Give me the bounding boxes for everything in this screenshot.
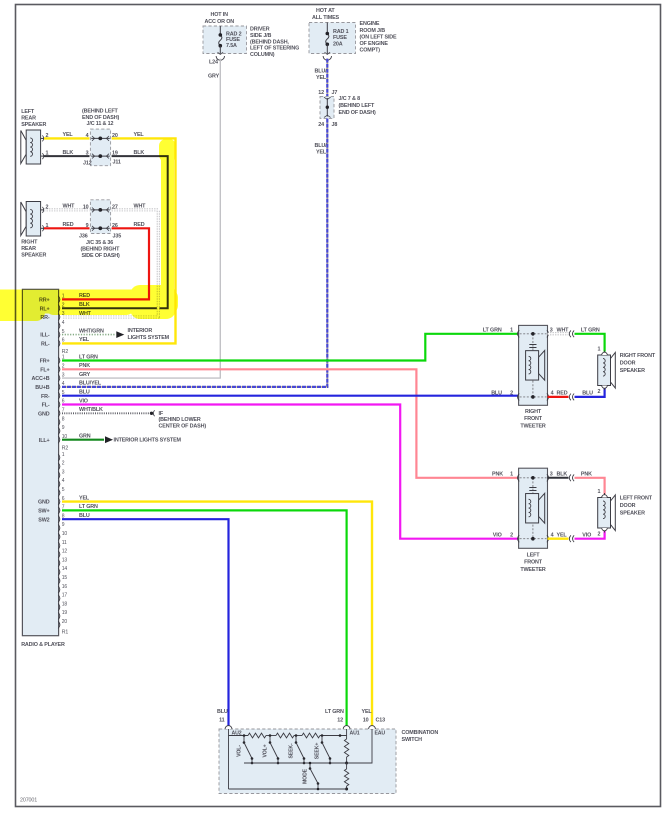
svg-text:HOT IN: HOT IN bbox=[211, 12, 229, 18]
svg-text:J8: J8 bbox=[332, 122, 338, 128]
svg-text:LT GRN: LT GRN bbox=[79, 354, 98, 360]
svg-text:R2: R2 bbox=[62, 446, 69, 452]
svg-text:5: 5 bbox=[62, 487, 65, 493]
resistor to bottom rail bbox=[346, 763, 348, 769]
svg-text:COMPT): COMPT) bbox=[360, 48, 381, 54]
svg-text:YEL: YEL bbox=[316, 150, 327, 156]
svg-text:YEL: YEL bbox=[79, 337, 90, 343]
svg-text:ENGINE: ENGINE bbox=[360, 21, 380, 27]
wire RED right tweeter pin4 to connector bbox=[548, 396, 569, 398]
wire BLU to right front door speaker pin 2 bbox=[575, 389, 605, 397]
svg-text:3: 3 bbox=[550, 472, 553, 478]
junction connector J/C 11 & 12 box bbox=[90, 129, 110, 166]
svg-text:FUSE: FUSE bbox=[333, 35, 347, 41]
svg-text:BLK: BLK bbox=[557, 472, 568, 478]
wire LT GRN to right front door speaker pin 1 bbox=[575, 334, 605, 352]
tweeter internal wiring (dashed) bbox=[520, 477, 547, 479]
svg-text:VOL-: VOL- bbox=[237, 745, 243, 757]
svg-text:2: 2 bbox=[597, 389, 600, 395]
svg-text:12: 12 bbox=[318, 90, 324, 96]
svg-text:9: 9 bbox=[86, 223, 89, 229]
svg-text:BLU: BLU bbox=[491, 391, 502, 397]
svg-text:16: 16 bbox=[62, 584, 68, 590]
svg-text:REAR: REAR bbox=[21, 246, 36, 252]
wire WHT right tweeter pin3 to connector bbox=[548, 332, 569, 335]
connector IF (behind lower center of dash) bbox=[150, 412, 153, 415]
connector bump under RAD 1 bbox=[323, 56, 331, 60]
svg-text:(BEHIND LEFT: (BEHIND LEFT bbox=[339, 103, 375, 109]
svg-text:RAD 1: RAD 1 bbox=[333, 29, 349, 35]
tweeter speaker element bbox=[526, 351, 539, 380]
svg-text:C13: C13 bbox=[376, 718, 386, 724]
svg-text:1: 1 bbox=[510, 472, 513, 478]
svg-text:BLU: BLU bbox=[582, 391, 593, 397]
svg-text:DOOR: DOOR bbox=[620, 503, 636, 509]
svg-text:LEFT FRONT: LEFT FRONT bbox=[620, 496, 653, 502]
wire BLU radio FR- to right front tweeter pin 2 bbox=[62, 395, 519, 397]
speaker pin stubs bbox=[41, 209, 44, 211]
svg-text:J12: J12 bbox=[83, 161, 92, 167]
svg-text:COMBINATION: COMBINATION bbox=[402, 730, 439, 736]
svg-text:YEL: YEL bbox=[316, 75, 327, 81]
svg-text:9: 9 bbox=[62, 522, 65, 528]
svg-text:2: 2 bbox=[597, 532, 600, 538]
svg-text:R1: R1 bbox=[62, 630, 69, 636]
svg-text:(BEHIND DASH,: (BEHIND DASH, bbox=[250, 39, 289, 45]
svg-text:SEEK-: SEEK- bbox=[289, 743, 295, 759]
fuse RAD 2 symbol bbox=[219, 26, 221, 35]
svg-text:BU+B: BU+B bbox=[35, 385, 49, 391]
speaker cone bbox=[21, 131, 26, 164]
wire LT GRN radio SW+ to combination switch AU1 bbox=[62, 510, 347, 725]
wire WHT/GRN with arrow to interior lights system bbox=[62, 334, 115, 336]
switch VOL- bbox=[243, 736, 245, 743]
svg-text:J/C 35 & 36: J/C 35 & 36 bbox=[86, 240, 113, 246]
switch SEEK- bbox=[295, 736, 297, 743]
switch SEEK+ bbox=[321, 736, 323, 743]
svg-text:LT GRN: LT GRN bbox=[79, 504, 98, 510]
svg-text:RED: RED bbox=[134, 222, 145, 228]
svg-text:13: 13 bbox=[62, 557, 68, 563]
wire WHT/BLK radio GND to IF connector bbox=[62, 412, 150, 414]
svg-text:BLK: BLK bbox=[63, 150, 74, 156]
svg-text:RADIO & PLAYER: RADIO & PLAYER bbox=[21, 642, 65, 648]
svg-text:RIGHT: RIGHT bbox=[21, 240, 38, 246]
svg-text:4: 4 bbox=[62, 320, 65, 326]
door speaker pin stubs and connectors bbox=[604, 351, 606, 356]
svg-text:(BEHIND RIGHT: (BEHIND RIGHT bbox=[81, 247, 121, 253]
svg-text:TWEETER: TWEETER bbox=[520, 567, 546, 573]
svg-text:REAR: REAR bbox=[21, 116, 36, 122]
svg-text:BLU/YEL: BLU/YEL bbox=[79, 381, 102, 387]
tweeter capacitor bbox=[529, 344, 536, 346]
svg-text:8: 8 bbox=[62, 416, 65, 422]
connector L24 bump bbox=[216, 56, 224, 60]
svg-text:3: 3 bbox=[62, 469, 65, 475]
svg-text:WHT: WHT bbox=[134, 204, 147, 210]
svg-text:12: 12 bbox=[337, 718, 343, 724]
svg-text:SPEAKER: SPEAKER bbox=[21, 252, 46, 258]
svg-text:ACC+B: ACC+B bbox=[32, 376, 50, 382]
svg-text:10: 10 bbox=[62, 531, 68, 537]
radio & player box bbox=[22, 289, 58, 635]
svg-text:ILL+: ILL+ bbox=[39, 438, 50, 444]
svg-text:PNK: PNK bbox=[492, 472, 503, 478]
wire LT GRN radio FR+ to right front tweeter pin 1 bbox=[62, 334, 519, 361]
wire BLU radio SW2 to combination switch AU2 bbox=[62, 519, 229, 725]
wire PNK to left front door speaker pin 1 bbox=[575, 478, 605, 495]
yellow highlighter marks bbox=[0, 139, 178, 321]
combination switch middle rail bbox=[244, 762, 347, 764]
svg-text:4: 4 bbox=[86, 133, 89, 139]
wire GRY vertical from fuse RAD 2 to radio ACC+B bbox=[219, 59, 221, 379]
svg-text:PNK: PNK bbox=[581, 472, 592, 478]
svg-text:DOOR: DOOR bbox=[620, 361, 636, 367]
svg-text:GRN: GRN bbox=[79, 434, 91, 440]
svg-text:SEEK+: SEEK+ bbox=[315, 743, 321, 760]
inline connector right top bbox=[569, 330, 574, 337]
svg-text:COLUMN): COLUMN) bbox=[250, 52, 275, 58]
svg-text:14: 14 bbox=[62, 566, 68, 572]
svg-text:18: 18 bbox=[62, 601, 68, 607]
door speaker cone bbox=[611, 352, 616, 388]
wire PNK radio FL+ to left front tweeter pin 1 bbox=[62, 369, 519, 478]
svg-text:WHT/BLK: WHT/BLK bbox=[79, 407, 103, 413]
engine room J/B box (dashed) bbox=[309, 23, 356, 54]
tweeter internal wiring (dashed) bbox=[520, 333, 547, 335]
svg-text:RIGHT FRONT: RIGHT FRONT bbox=[620, 353, 656, 359]
tweeter pin brackets bbox=[518, 330, 520, 337]
svg-text:1: 1 bbox=[597, 489, 600, 495]
svg-text:VOL+: VOL+ bbox=[263, 744, 269, 757]
svg-text:J36: J36 bbox=[79, 234, 88, 240]
svg-text:11: 11 bbox=[219, 718, 225, 724]
svg-text:6: 6 bbox=[62, 338, 65, 344]
wire RED from J/C 35&36 to radio RR+ pin 1 bbox=[62, 228, 149, 299]
wire VIO radio FL- to left front tweeter pin 2 bbox=[62, 405, 519, 539]
svg-text:WHT/GRN: WHT/GRN bbox=[79, 328, 104, 334]
inline connector right bottom bbox=[569, 394, 574, 401]
svg-text:YEL: YEL bbox=[557, 532, 568, 538]
svg-text:LEFT OF STEERING: LEFT OF STEERING bbox=[250, 46, 299, 52]
svg-text:SIDE OF DASH): SIDE OF DASH) bbox=[82, 253, 121, 259]
svg-text:MODE: MODE bbox=[303, 768, 309, 784]
svg-text:SPEAKER: SPEAKER bbox=[620, 368, 645, 374]
svg-text:WHT: WHT bbox=[63, 204, 76, 210]
svg-text:LT GRN: LT GRN bbox=[483, 328, 502, 334]
svg-text:3: 3 bbox=[62, 372, 65, 378]
combination switch box bbox=[219, 729, 396, 794]
svg-text:VIO: VIO bbox=[79, 398, 88, 404]
speaker pin stubs bbox=[41, 137, 44, 139]
wire BLU/YEL from J/C 7&8 down to radio BU+B pin 4 bbox=[326, 119, 328, 387]
svg-text:RED: RED bbox=[63, 222, 74, 228]
tweeter box bbox=[519, 468, 548, 548]
svg-text:VIO: VIO bbox=[582, 532, 591, 538]
svg-text:L24: L24 bbox=[209, 60, 218, 66]
wire BLK from J/C 11&12 to radio RL+ pin 2 bbox=[62, 156, 168, 308]
svg-text:ALL TIMES: ALL TIMES bbox=[312, 15, 340, 21]
svg-text:1: 1 bbox=[597, 347, 600, 353]
svg-text:AU1: AU1 bbox=[350, 731, 360, 737]
svg-text:FL+: FL+ bbox=[40, 367, 49, 373]
svg-text:GND: GND bbox=[38, 500, 50, 506]
svg-text:CENTER OF DASH): CENTER OF DASH) bbox=[159, 424, 207, 430]
svg-text:J7: J7 bbox=[332, 90, 338, 96]
wire WHT right rear speaker to J/C 35&36 bbox=[44, 209, 90, 212]
door speaker cone bbox=[611, 495, 616, 531]
svg-text:(ON LEFT SIDE: (ON LEFT SIDE bbox=[360, 34, 398, 40]
svg-text:11: 11 bbox=[62, 540, 67, 546]
svg-text:FR+: FR+ bbox=[40, 359, 50, 365]
svg-text:ILL-: ILL- bbox=[40, 333, 50, 339]
wire BLK left rear speaker to J/C 11&12 bbox=[44, 155, 90, 157]
wire GRN radio ILL+ with arrow to interior lights system bbox=[62, 439, 104, 441]
svg-text:YEL: YEL bbox=[134, 132, 145, 138]
svg-text:INTERIOR LIGHTS SYSTEM: INTERIOR LIGHTS SYSTEM bbox=[114, 437, 182, 443]
svg-text:SIDE J/B: SIDE J/B bbox=[250, 33, 272, 39]
tweeter box bbox=[519, 325, 548, 405]
svg-text:SW2: SW2 bbox=[38, 517, 49, 523]
svg-text:BLU: BLU bbox=[79, 390, 90, 396]
svg-text:RED: RED bbox=[557, 391, 568, 397]
svg-text:BLU/: BLU/ bbox=[315, 69, 328, 75]
svg-text:J35: J35 bbox=[113, 234, 122, 240]
wire YEL from J/C 11&12 to radio RL- pin 6 bbox=[62, 138, 176, 343]
svg-text:2: 2 bbox=[510, 533, 513, 539]
svg-text:FL-: FL- bbox=[42, 403, 50, 409]
svg-text:FRONT: FRONT bbox=[524, 416, 543, 422]
svg-text:LIGHTS SYSTEM: LIGHTS SYSTEM bbox=[128, 335, 170, 341]
resistor below AU1 bbox=[346, 729, 348, 739]
svg-text:J11: J11 bbox=[113, 160, 121, 166]
svg-text:LT GRN: LT GRN bbox=[581, 328, 600, 334]
svg-text:SPEAKER: SPEAKER bbox=[21, 122, 46, 128]
svg-text:VIO: VIO bbox=[493, 532, 502, 538]
wire BLK left tweeter pin3 to connector bbox=[548, 477, 569, 479]
tweeter pin brackets bbox=[518, 474, 520, 481]
svg-text:LEFT: LEFT bbox=[21, 109, 35, 115]
svg-text:ROOM J/B: ROOM J/B bbox=[360, 28, 386, 34]
wire YEL radio GND to combination switch EAU bbox=[62, 502, 372, 726]
driver side J/B box (dashed) bbox=[203, 26, 247, 54]
wire WHT from J/C 35&36 to radio RR- pin 3 bbox=[62, 210, 158, 317]
svg-text:WHT: WHT bbox=[557, 328, 570, 334]
svg-text:LEFT: LEFT bbox=[527, 553, 541, 559]
svg-text:4: 4 bbox=[62, 381, 65, 387]
svg-text:TWEETER: TWEETER bbox=[520, 423, 546, 429]
svg-text:HOT AT: HOT AT bbox=[316, 8, 335, 14]
svg-text:GND: GND bbox=[38, 411, 50, 417]
svg-text:10: 10 bbox=[363, 718, 369, 724]
switch VOL+ bbox=[269, 736, 271, 743]
wire YEL left rear speaker to J/C 11&12 bbox=[44, 137, 90, 139]
svg-text:207001: 207001 bbox=[20, 798, 37, 804]
svg-text:24: 24 bbox=[318, 122, 324, 128]
tweeter speaker element bbox=[526, 494, 539, 523]
svg-text:GRY: GRY bbox=[79, 372, 91, 378]
svg-text:YEL: YEL bbox=[63, 132, 74, 138]
switch MODE bbox=[309, 763, 311, 769]
wire BLU/YEL horizontal into radio pin 4 bbox=[62, 386, 328, 388]
inline connector left top bbox=[569, 474, 574, 481]
svg-text:1: 1 bbox=[62, 452, 65, 458]
wire YEL left tweeter pin4 to connector bbox=[548, 538, 569, 540]
svg-text:SW+: SW+ bbox=[38, 509, 49, 515]
svg-text:20: 20 bbox=[62, 619, 68, 625]
svg-text:BLU: BLU bbox=[217, 709, 228, 715]
svg-text:FR-: FR- bbox=[41, 394, 50, 400]
svg-text:19: 19 bbox=[62, 610, 68, 616]
svg-text:4: 4 bbox=[62, 478, 65, 484]
wire RED right rear speaker to J/C 35&36 bbox=[44, 227, 90, 229]
speaker body bbox=[26, 202, 40, 237]
svg-text:BLU: BLU bbox=[79, 513, 90, 519]
speaker body bbox=[26, 130, 40, 164]
svg-text:BLU/: BLU/ bbox=[315, 143, 328, 149]
svg-text:1: 1 bbox=[510, 328, 513, 334]
combination switch bottom rail bbox=[229, 788, 347, 790]
svg-text:FRONT: FRONT bbox=[524, 560, 543, 566]
svg-text:10: 10 bbox=[83, 205, 89, 211]
radio connector pin brackets bbox=[58, 296, 60, 303]
svg-text:OF ENGINE: OF ENGINE bbox=[360, 41, 389, 47]
svg-text:20A: 20A bbox=[333, 42, 343, 48]
wire VIO to left front door speaker pin 2 bbox=[575, 531, 605, 539]
svg-text:RIGHT: RIGHT bbox=[525, 409, 542, 415]
svg-text:9: 9 bbox=[62, 425, 65, 431]
svg-text:SWITCH: SWITCH bbox=[402, 737, 423, 743]
svg-text:BLK: BLK bbox=[134, 150, 145, 156]
svg-text:RL-: RL- bbox=[41, 342, 50, 348]
svg-text:PNK: PNK bbox=[79, 363, 90, 369]
svg-text:ACC OR ON: ACC OR ON bbox=[205, 19, 235, 25]
svg-text:17: 17 bbox=[62, 593, 68, 599]
svg-text:3: 3 bbox=[86, 151, 89, 157]
svg-text:YEL: YEL bbox=[362, 709, 373, 715]
door speaker pin stubs and connectors bbox=[604, 493, 606, 498]
svg-text:(BEHIND LOWER: (BEHIND LOWER bbox=[159, 417, 201, 423]
svg-text:EAU: EAU bbox=[375, 731, 386, 737]
combination switch pin bumps AU2 AU1 EAU bbox=[225, 726, 232, 729]
svg-text:LT GRN: LT GRN bbox=[325, 709, 344, 715]
junction connector J/C 35 & 36 box bbox=[90, 200, 110, 234]
fuse RAD 1 symbol bbox=[326, 23, 328, 34]
svg-text:J/C 7 & 8: J/C 7 & 8 bbox=[339, 96, 361, 102]
combination switch top rail with resistors bbox=[228, 729, 230, 789]
speaker cone bbox=[21, 202, 26, 236]
svg-text:15: 15 bbox=[62, 575, 68, 581]
svg-text:12: 12 bbox=[62, 549, 68, 555]
svg-text:YEL: YEL bbox=[79, 495, 90, 501]
door speaker body bbox=[598, 498, 611, 529]
svg-text:7.5A: 7.5A bbox=[226, 43, 237, 49]
wire GRY horizontal into radio pin 3 bbox=[62, 377, 221, 379]
door speaker body bbox=[598, 355, 611, 386]
svg-text:END OF DASH): END OF DASH) bbox=[82, 115, 119, 121]
svg-text:2: 2 bbox=[62, 461, 65, 467]
svg-text:GRY: GRY bbox=[208, 74, 220, 80]
svg-text:END OF DASH): END OF DASH) bbox=[339, 110, 376, 116]
svg-text:2: 2 bbox=[510, 391, 513, 397]
svg-text:INTERIOR: INTERIOR bbox=[128, 328, 153, 334]
EAU branch to middle rail bbox=[347, 729, 372, 763]
svg-text:SPEAKER: SPEAKER bbox=[620, 511, 645, 517]
tweeter capacitor bbox=[529, 487, 536, 489]
inline connector left bottom bbox=[569, 535, 574, 542]
svg-text:DRIVER: DRIVER bbox=[250, 27, 270, 33]
svg-text:(BEHIND LEFT: (BEHIND LEFT bbox=[82, 109, 118, 115]
wire BLU/YEL from RAD 1 fuse to J/C 7&8 bbox=[326, 59, 328, 97]
svg-text:J/C 11 & 12: J/C 11 & 12 bbox=[87, 121, 114, 127]
